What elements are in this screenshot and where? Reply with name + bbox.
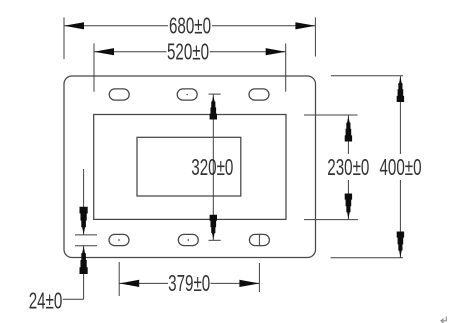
svg-text:680±0: 680±0 xyxy=(169,14,211,40)
svg-text:379±0: 379±0 xyxy=(168,271,210,297)
svg-text:520±0: 520±0 xyxy=(167,40,209,66)
svg-text:320±0: 320±0 xyxy=(191,155,233,181)
svg-text:230±0: 230±0 xyxy=(327,155,369,181)
svg-text:400±0: 400±0 xyxy=(379,155,421,181)
svg-text:24±0: 24±0 xyxy=(29,288,63,314)
